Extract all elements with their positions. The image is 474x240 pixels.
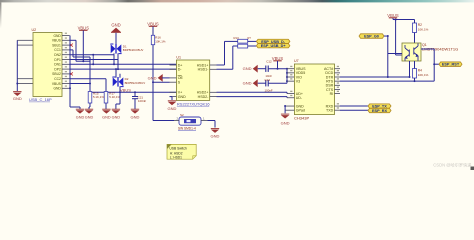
svg-text:RS2227XUTQK16: RS2227XUTQK16: [177, 101, 210, 106]
svg-text:V3: V3: [296, 79, 300, 83]
svg-text:100nF: 100nF: [265, 88, 273, 92]
svg-text:GND: GND: [76, 115, 85, 119]
svg-text:SBU1: SBU1: [52, 43, 61, 47]
svg-text:5.1K,1%: 5.1K,1%: [93, 95, 104, 99]
svg-text:10K,1%: 10K,1%: [418, 27, 429, 31]
svg-text:GND: GND: [102, 115, 111, 119]
svg-text:GND: GND: [281, 121, 290, 126]
svg-text:ESP_TX: ESP_TX: [372, 104, 387, 108]
svg-text:DP1: DP1: [54, 58, 61, 62]
svg-text:10K,1%: 10K,1%: [155, 40, 166, 44]
svg-text:VBUS: VBUS: [78, 25, 90, 30]
svg-text:CC1: CC1: [54, 48, 61, 52]
svg-text:GND: GND: [13, 96, 22, 101]
svg-text:DN2: DN2: [54, 53, 61, 57]
svg-text:GND: GND: [148, 75, 157, 80]
svg-text:U7: U7: [294, 59, 299, 63]
svg-text:CSDN @哈尔罗快递: CSDN @哈尔罗快递: [433, 161, 472, 168]
svg-text:GND: GND: [131, 114, 140, 119]
svg-text:UD-: UD-: [296, 96, 303, 100]
svg-text:USB_C_16P: USB_C_16P: [29, 97, 52, 102]
svg-text:VBUS: VBUS: [147, 21, 159, 26]
svg-text:ESP_USB_D+: ESP_USB_D+: [261, 44, 287, 48]
svg-text:C13: C13: [265, 78, 271, 82]
svg-text:RI: RI: [330, 92, 334, 96]
svg-text:TXD: TXD: [326, 109, 334, 113]
svg-text:U1: U1: [176, 56, 181, 60]
svg-text:CC2: CC2: [54, 77, 61, 81]
svg-text:ESP_G0: ESP_G0: [364, 34, 379, 38]
svg-text:ESP_RX: ESP_RX: [372, 109, 387, 113]
svg-text:DP2: DP2: [54, 67, 61, 71]
svg-text:5.1K,1%: 5.1K,1%: [109, 95, 120, 99]
svg-text:VBUS: VBUS: [120, 88, 131, 93]
svg-text:GND: GND: [85, 115, 94, 119]
svg-text:BDP5N2C05UV: BDP5N2C05UV: [123, 48, 144, 52]
svg-text:GND: GND: [243, 66, 252, 71]
svg-text:S2: S2: [180, 113, 184, 117]
svg-text:HSD2-: HSD2-: [198, 95, 210, 99]
svg-text:VBUS: VBUS: [52, 82, 62, 86]
svg-text:VBUS: VBUS: [272, 56, 284, 61]
svg-text:GND: GND: [178, 95, 186, 99]
svg-text:GND: GND: [243, 81, 252, 86]
svg-text:HSD1-: HSD1-: [198, 68, 210, 72]
svg-text:10K,1%: 10K,1%: [418, 73, 429, 77]
svg-text:CH343P: CH343P: [294, 116, 309, 121]
svg-text:GND: GND: [211, 133, 220, 138]
svg-text:VBUS: VBUS: [52, 39, 62, 43]
svg-text:GND: GND: [168, 106, 177, 111]
svg-text:L: HSD1: L: HSD1: [170, 155, 182, 159]
svg-text:100nF: 100nF: [138, 99, 146, 103]
svg-text:R13: R13: [234, 36, 240, 40]
svg-text:ESP_RST: ESP_RST: [442, 63, 460, 67]
svg-text:SW SMD1-4: SW SMD1-4: [178, 126, 196, 130]
svg-text:GND: GND: [111, 22, 120, 27]
svg-text:R?: R?: [248, 36, 252, 40]
svg-text:GND: GND: [53, 87, 61, 91]
svg-text:BDP5N2C05UV: BDP5N2C05UV: [125, 81, 146, 85]
svg-text:VBUS: VBUS: [387, 13, 399, 18]
svg-text:SBU2: SBU2: [52, 72, 61, 76]
svg-text:DN1: DN1: [54, 63, 61, 67]
svg-text:GND: GND: [53, 34, 61, 38]
svg-text:GPad: GPad: [296, 109, 305, 113]
svg-text:U2: U2: [32, 28, 37, 32]
svg-text:USB Switch: USB Switch: [169, 147, 187, 151]
svg-text:GND: GND: [112, 115, 121, 119]
